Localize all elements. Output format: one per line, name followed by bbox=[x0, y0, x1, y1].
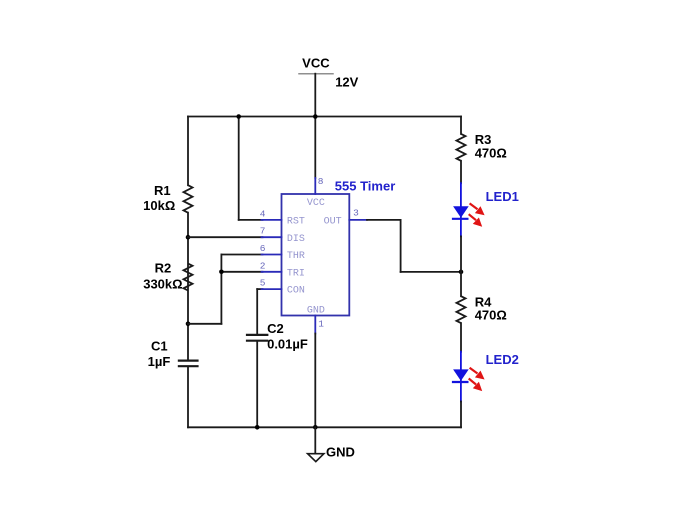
svg-text:2: 2 bbox=[260, 260, 266, 271]
svg-text:GND: GND bbox=[326, 444, 355, 459]
svg-text:1: 1 bbox=[318, 319, 324, 330]
svg-text:C1: C1 bbox=[151, 339, 168, 354]
wire CON (pin 5 down to C2) bbox=[257, 289, 262, 334]
wire VCC stem (top rail to pin 8) bbox=[314, 117, 316, 179]
pin 3 stub (OUT) bbox=[349, 219, 367, 221]
LED2 light arrow 1 bbox=[470, 368, 485, 380]
svg-text:6: 6 bbox=[260, 243, 266, 254]
pin 6 stub (THR) bbox=[262, 254, 282, 256]
LED2 light arrow 2 bbox=[469, 379, 483, 392]
LED1 light arrow 2 bbox=[469, 214, 483, 227]
wire VCC stem (bar to top rail) bbox=[314, 74, 316, 117]
svg-text:LED2: LED2 bbox=[486, 352, 519, 367]
wire DIS (pin 7 to R1/R2 node) bbox=[188, 236, 263, 238]
junction R1 bottom / DIS wire bbox=[186, 235, 191, 240]
svg-text:8: 8 bbox=[318, 176, 324, 187]
svg-text:CON: CON bbox=[287, 286, 305, 297]
wire LED2 to ground rail bbox=[460, 402, 462, 428]
wire pin 1 to ground rail bbox=[314, 334, 316, 428]
LED1 light arrow 1 bbox=[470, 203, 485, 215]
junction C2 / ground rail bbox=[255, 425, 260, 430]
junction THR / TRI bbox=[219, 270, 224, 275]
svg-text:R2: R2 bbox=[155, 260, 172, 275]
wire left rail middle (R1 to C1) bbox=[187, 213, 189, 360]
wire THR-TRI link to R2/C1 node bbox=[188, 323, 221, 325]
pin 2 stub (TRI) bbox=[262, 271, 282, 273]
svg-text:C2: C2 bbox=[267, 321, 284, 336]
resistor R1 bbox=[184, 185, 193, 213]
svg-text:RST: RST bbox=[287, 217, 305, 228]
svg-text:555 Timer: 555 Timer bbox=[335, 178, 395, 193]
wire RST riser (top rail down to pin 4) bbox=[239, 117, 263, 220]
capacitor C2 bbox=[247, 335, 267, 341]
wire THR (pin 6) bbox=[221, 254, 262, 256]
svg-text:OUT: OUT bbox=[324, 217, 342, 228]
LED2 diode symbol bbox=[453, 352, 469, 402]
wire bottom ground rail bbox=[188, 426, 461, 428]
svg-text:VCC: VCC bbox=[302, 56, 330, 71]
svg-text:330kΩ: 330kΩ bbox=[143, 276, 182, 291]
wire TRI (pin 2) bbox=[221, 271, 262, 273]
capacitor C1 bbox=[179, 361, 198, 367]
resistor R2 bbox=[184, 264, 193, 291]
svg-text:12V: 12V bbox=[335, 74, 358, 89]
pin 8 stub (VCC) bbox=[314, 178, 316, 194]
wire left rail lower (C1 to bottom rail) bbox=[187, 367, 189, 427]
junction OUT / LED1 / R4 bbox=[459, 270, 464, 275]
wire THR-TRI vertical link bbox=[220, 255, 222, 324]
ground symbol bbox=[308, 427, 324, 461]
op-amp U1 555 timer IC body bbox=[282, 194, 350, 316]
wire R4 to LED2 bbox=[460, 323, 462, 352]
junction GND / ground rail bbox=[313, 425, 318, 430]
pin 7 stub (DIS) bbox=[262, 236, 282, 238]
svg-text:5: 5 bbox=[260, 278, 266, 289]
svg-text:470Ω: 470Ω bbox=[475, 308, 507, 323]
wire R3 to LED1 bbox=[460, 161, 462, 183]
svg-text:10kΩ: 10kΩ bbox=[143, 198, 175, 213]
svg-text:3: 3 bbox=[353, 208, 359, 219]
pin 5 stub (CON) bbox=[262, 288, 282, 290]
svg-text:LED1: LED1 bbox=[486, 189, 519, 204]
svg-text:470Ω: 470Ω bbox=[475, 145, 507, 160]
resistor R4 bbox=[457, 296, 466, 323]
wire top supply rail bbox=[188, 116, 461, 118]
svg-text:1µF: 1µF bbox=[148, 354, 171, 369]
svg-text:VCC: VCC bbox=[307, 198, 325, 209]
wire C2 bottom to ground rail bbox=[256, 342, 258, 428]
wire LED1 to R4 bbox=[460, 236, 462, 296]
svg-text:THR: THR bbox=[287, 251, 305, 262]
svg-text:TRI: TRI bbox=[287, 268, 305, 279]
svg-text:0.01µF: 0.01µF bbox=[267, 336, 308, 351]
svg-text:R1: R1 bbox=[154, 183, 171, 198]
wire left rail upper (top rail to R1) bbox=[187, 117, 189, 186]
pin 1 stub (GND) bbox=[314, 316, 316, 334]
svg-text:GND: GND bbox=[307, 305, 325, 316]
power VCC symbol bbox=[299, 56, 333, 74]
resistor R3 bbox=[457, 134, 466, 161]
svg-text:DIS: DIS bbox=[287, 234, 305, 245]
LED1 diode symbol bbox=[453, 183, 469, 236]
svg-text:4: 4 bbox=[260, 208, 266, 219]
junction R2 bottom / C1 top / THR-TRI link bbox=[186, 322, 191, 327]
pin 4 stub (RST) bbox=[262, 219, 282, 221]
junction RST riser / top rail bbox=[236, 114, 241, 119]
junction VCC / top rail bbox=[313, 114, 318, 119]
wire OUT (pin 3 to LED junction) bbox=[367, 220, 461, 272]
svg-text:7: 7 bbox=[260, 226, 266, 237]
wire right rail (top rail to R3) bbox=[460, 117, 462, 134]
